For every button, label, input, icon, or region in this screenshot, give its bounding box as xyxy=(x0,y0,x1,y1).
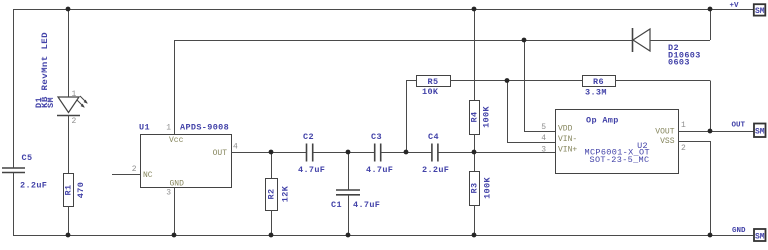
wire bottom GND rail xyxy=(13,235,753,237)
svg-text:SM: SM xyxy=(46,97,56,108)
wire U1 Vcc vertical xyxy=(174,40,176,134)
wire U1 NC stub xyxy=(112,174,140,176)
svg-text:Op Amp: Op Amp xyxy=(586,116,619,126)
svg-text:100K: 100K xyxy=(482,106,492,128)
wire U2 VSS to GND rail xyxy=(678,141,711,235)
svg-text:5: 5 xyxy=(541,123,546,132)
svg-text:3: 3 xyxy=(166,189,171,198)
LED D1 xyxy=(34,32,88,126)
svg-text:C5: C5 xyxy=(22,153,33,163)
junction VOUT / R6 feedback xyxy=(708,129,713,134)
wire Vcc net to U2 VDD xyxy=(524,40,555,132)
resistor R2 xyxy=(266,152,291,235)
svg-text:+V: +V xyxy=(730,2,740,10)
svg-text:1: 1 xyxy=(166,124,171,133)
svg-text:APDS-9008: APDS-9008 xyxy=(180,123,229,133)
svg-text:2.2uF: 2.2uF xyxy=(20,181,47,191)
svg-text:R4: R4 xyxy=(470,112,480,123)
wire C3/C4 node to R5 xyxy=(406,81,416,153)
wire R5/R6 node to U2 VIN- xyxy=(507,81,555,143)
wire R6 to VOUT node xyxy=(615,81,711,132)
wire C3 to C4 xyxy=(381,152,432,154)
svg-text:GND: GND xyxy=(732,227,746,235)
wire +V rail to R4 xyxy=(474,9,476,101)
svg-text:10K: 10K xyxy=(422,87,439,97)
svg-text:SM: SM xyxy=(755,127,765,136)
svg-text:U1: U1 xyxy=(139,123,150,133)
flag OUT xyxy=(732,121,766,137)
wire C4 to U2 VIN+ xyxy=(438,152,555,154)
wire LED cathode to R1 xyxy=(68,116,70,174)
svg-text:3.3M: 3.3M xyxy=(585,88,607,98)
svg-text:R5: R5 xyxy=(428,77,439,87)
op-amp U2 MCP6001 xyxy=(541,110,686,174)
capacitor C3 xyxy=(366,132,393,175)
svg-text:R2: R2 xyxy=(267,189,277,200)
capacitor C1 xyxy=(331,152,380,235)
resistor R4 xyxy=(470,101,492,135)
wire U1 GND pin to GND rail xyxy=(174,187,176,235)
svg-text:VDD: VDD xyxy=(558,125,573,134)
wire C2 to C3 xyxy=(313,152,375,154)
wire C5 to GND rail xyxy=(13,173,15,236)
svg-text:100K: 100K xyxy=(483,177,493,199)
junction R5-R6 net / U2 VIN- xyxy=(505,78,510,83)
svg-text:4.7uF: 4.7uF xyxy=(298,165,325,175)
resistor R5 xyxy=(417,76,451,98)
svg-text:VOUT: VOUT xyxy=(655,128,674,137)
junction GND rail / R3 xyxy=(472,233,477,238)
junction +V rail / LED branch xyxy=(66,7,71,12)
IC U1 APDS-9008 xyxy=(132,123,238,198)
flag +V supply xyxy=(730,2,766,16)
svg-text:C2: C2 xyxy=(303,132,314,142)
flag GND xyxy=(732,227,766,241)
resistor R6 xyxy=(583,76,616,98)
svg-text:OUT: OUT xyxy=(732,121,746,129)
svg-text:470: 470 xyxy=(76,182,86,198)
junction node R4-R3 xyxy=(472,150,477,155)
svg-text:2: 2 xyxy=(72,117,77,126)
junction GND rail / C1 xyxy=(346,233,351,238)
svg-text:C4: C4 xyxy=(428,132,439,142)
svg-text:0603: 0603 xyxy=(668,58,690,68)
wire U2 VOUT to OUT flag xyxy=(678,131,754,133)
wire R4 to node xyxy=(474,134,476,171)
wire R1 to GND rail xyxy=(68,207,70,236)
diode D2 xyxy=(633,28,701,68)
svg-text:SM: SM xyxy=(755,7,765,16)
capacitor C4 xyxy=(422,132,449,175)
junction +V rail / D2 branch xyxy=(708,7,713,12)
svg-text:VIN-: VIN- xyxy=(558,135,577,144)
junction OUT node / C1 xyxy=(346,150,351,155)
svg-text:4: 4 xyxy=(541,134,546,143)
junction C3-C4 node / R5 xyxy=(404,150,409,155)
svg-text:GND: GND xyxy=(170,180,185,189)
svg-text:VIN+: VIN+ xyxy=(558,146,577,155)
svg-text:4: 4 xyxy=(233,143,238,152)
svg-text:4.7uF: 4.7uF xyxy=(366,165,393,175)
svg-text:1: 1 xyxy=(72,90,77,99)
svg-text:R3: R3 xyxy=(470,183,480,194)
svg-text:OUT: OUT xyxy=(213,149,228,158)
svg-text:12K: 12K xyxy=(281,185,291,202)
junction +V rail / R4 branch xyxy=(472,7,477,12)
svg-text:C3: C3 xyxy=(371,132,382,142)
svg-text:KB RevMnt LED: KB RevMnt LED xyxy=(40,32,50,108)
svg-text:2: 2 xyxy=(681,144,686,153)
svg-text:R1: R1 xyxy=(64,185,74,196)
capacitor C5 xyxy=(2,153,47,191)
wire R5 to R6 xyxy=(450,80,582,82)
junction GND rail / R2 xyxy=(269,233,274,238)
svg-text:4.7uF: 4.7uF xyxy=(353,200,380,210)
wire +V rail to LED anode xyxy=(68,9,70,97)
resistor R1 xyxy=(64,174,87,207)
wire R3 to GND rail xyxy=(474,205,476,235)
svg-text:1: 1 xyxy=(681,121,686,130)
svg-text:Vcc: Vcc xyxy=(169,136,184,145)
wire top +V rail xyxy=(13,9,753,11)
svg-text:SOT-23-5_MC: SOT-23-5_MC xyxy=(590,155,650,165)
svg-text:2: 2 xyxy=(132,165,137,174)
svg-text:SM: SM xyxy=(755,232,765,241)
svg-text:NC: NC xyxy=(143,171,153,180)
svg-text:3: 3 xyxy=(541,146,546,155)
svg-text:C1: C1 xyxy=(331,200,342,210)
wire U1 OUT to C2 xyxy=(231,152,307,154)
svg-text:2.2uF: 2.2uF xyxy=(422,165,449,175)
wire Vcc horizontal to D2 cathode xyxy=(174,40,632,42)
resistor R3 xyxy=(470,172,493,206)
junction OUT node / R2 xyxy=(269,150,274,155)
junction GND rail / U1 GND xyxy=(172,233,177,238)
svg-text:R6: R6 xyxy=(593,77,604,87)
wire D2 anode to +V rail xyxy=(650,9,711,41)
capacitor C2 xyxy=(298,132,325,175)
junction Vcc net / U2 VDD xyxy=(522,38,527,43)
wire left rail upper (to C5) xyxy=(13,9,15,168)
junction GND rail / R1 xyxy=(66,233,71,238)
svg-text:VSS: VSS xyxy=(660,137,675,146)
junction GND rail / U2 VSS xyxy=(708,233,713,238)
